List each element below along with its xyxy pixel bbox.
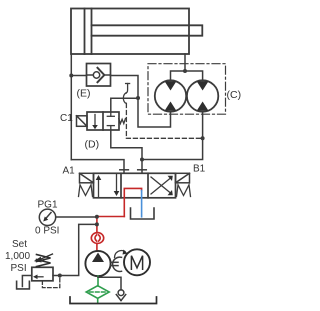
label M — [131, 256, 142, 270]
suction line green — [97, 276, 99, 286]
wire B line to right motor — [142, 112, 203, 160]
svg-text:PG1: PG1 — [38, 200, 58, 211]
node relief pilot junction — [58, 274, 62, 278]
wire flow divider tops — [171, 71, 203, 81]
pump pressure line red — [97, 217, 124, 233]
valve center position pressure path red — [124, 188, 141, 216]
wire valve D bottom to B line — [111, 130, 142, 173]
flow divider C right motor — [187, 80, 218, 111]
cylinder body — [71, 9, 189, 55]
valve D left envelope arrow — [92, 115, 98, 130]
cylinder piston — [85, 9, 92, 55]
node junction E / valve D / left motor — [136, 96, 140, 100]
svg-text:(E): (E) — [77, 88, 91, 100]
relief valve internal arrow — [33, 275, 43, 280]
check valve E box — [87, 64, 111, 87]
node relief junction — [95, 222, 99, 226]
rotation arrow — [115, 250, 128, 258]
valve center position tank path blue — [141, 191, 143, 217]
node drain joins B1 line — [201, 136, 205, 140]
valve envelope 3 crossed arrows — [151, 176, 173, 196]
case drain branch — [98, 277, 121, 290]
electric motor M — [124, 249, 150, 275]
cylinder rod — [92, 25, 203, 35]
valve D right envelope blocked ports — [107, 112, 114, 130]
svg-text:B1: B1 — [193, 164, 206, 175]
svg-text:(D): (D) — [85, 139, 100, 151]
svg-text:C1: C1 — [60, 113, 73, 124]
gauge wire — [56, 216, 97, 218]
wire A line to valve — [71, 160, 124, 174]
svg-text:A1: A1 — [63, 166, 76, 177]
valve right solenoid — [176, 173, 190, 183]
relief pilot dashed — [42, 276, 59, 288]
svg-text:PSI: PSI — [11, 263, 27, 274]
valve left solenoid — [80, 173, 94, 183]
relief valve adjust arrow — [34, 254, 53, 262]
svg-text:1,000: 1,000 — [5, 251, 30, 262]
relief valve box — [32, 267, 53, 281]
wire cylinder rod port down — [184, 54, 186, 71]
tank under relief — [17, 281, 30, 289]
wire to check valve E — [71, 75, 86, 77]
relief valve spring — [37, 255, 51, 267]
flow divider C dashed enclosure — [148, 64, 226, 114]
valve D spring — [119, 119, 126, 124]
wire left motor bottom to junction — [138, 98, 171, 127]
svg-text:0 PSI: 0 PSI — [35, 226, 59, 237]
valve A port cap — [120, 169, 129, 171]
strainer — [86, 286, 109, 304]
tank under valve T port — [131, 208, 155, 219]
drain line dashed to B1 line — [126, 104, 202, 139]
reservoir — [70, 297, 157, 304]
directional valve body — [94, 173, 176, 198]
pump shaft — [111, 262, 118, 265]
drain line solid top with hop — [123, 84, 129, 104]
inline check valve — [116, 290, 125, 301]
svg-text:Set: Set — [12, 239, 27, 250]
node junction B line — [140, 158, 144, 162]
wire cylinder cap port down left side — [70, 54, 72, 160]
pump — [85, 251, 110, 276]
solenoid valve D solenoid box C1 — [77, 116, 88, 127]
node junction at check valve inlet — [69, 74, 73, 78]
pressure gauge PG1 — [39, 209, 55, 225]
svg-text:(C): (C) — [227, 89, 242, 101]
valve B port cap — [138, 169, 147, 171]
wire valve D top to junction — [111, 98, 138, 112]
valve envelope 1 up arrow — [96, 175, 102, 197]
wire check valve E outlet to junction — [111, 76, 139, 99]
coupling arc — [113, 257, 122, 271]
valve envelope 1 down arrow — [114, 174, 120, 196]
relief outlet to tank — [22, 276, 31, 287]
node gauge junction — [95, 215, 99, 219]
valve right spring — [177, 185, 191, 197]
relief valve supply line — [53, 224, 97, 275]
quick disconnect — [91, 233, 103, 252]
flow divider C left motor — [155, 80, 186, 111]
check valve E symbol — [87, 68, 111, 82]
valve left spring — [79, 185, 93, 197]
node junction above flow divider — [183, 69, 187, 73]
solenoid valve D body — [87, 112, 119, 130]
